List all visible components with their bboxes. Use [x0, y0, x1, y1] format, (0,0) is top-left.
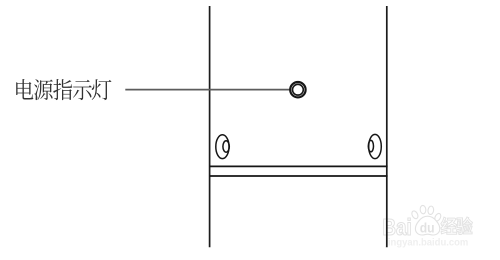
watermark paw toe 2	[420, 205, 426, 214]
upper horizontal panel seam wire	[210, 165, 388, 167]
char 示	[73, 80, 92, 100]
right mounting hole inner ellipse	[368, 140, 373, 151]
left mounting hole outer ellipse	[216, 135, 229, 159]
svg-text:jingyan.baidu.com: jingyan.baidu.com	[384, 237, 468, 248]
char 源	[34, 79, 53, 100]
watermark char 验	[457, 217, 473, 235]
power indicator LED outer ring	[290, 82, 305, 97]
watermark chars 经验	[441, 217, 473, 235]
right mounting hole outer ellipse	[369, 134, 382, 158]
power indicator LED inner ring	[293, 84, 304, 95]
panel left edge wire	[209, 6, 211, 247]
left mounting hole inner ellipse	[223, 141, 229, 152]
svg-text:du: du	[420, 220, 435, 236]
watermark char 经	[441, 217, 457, 234]
char 指	[53, 79, 72, 100]
char 灯	[92, 79, 112, 100]
watermark paw toe 1	[411, 210, 420, 220]
leader line wire	[125, 89, 289, 91]
watermark paw toe 3	[427, 206, 434, 215]
watermark Baidu logo group	[382, 205, 472, 248]
watermark paw pad	[415, 216, 439, 235]
char 电	[16, 79, 33, 100]
label text 电源指示灯	[16, 79, 111, 100]
lower horizontal panel seam wire	[210, 175, 388, 177]
panel right edge wire	[386, 6, 388, 247]
watermark paw toe 4	[434, 212, 442, 222]
